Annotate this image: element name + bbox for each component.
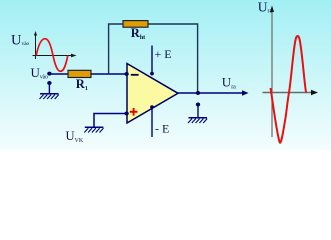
input graph horizontal axis <box>33 54 77 58</box>
output wire <box>178 92 243 94</box>
plus sign (noninverting input) <box>130 108 138 116</box>
node input terminal top <box>47 72 51 76</box>
ground (input port) <box>40 94 59 99</box>
node inverting input <box>124 72 128 76</box>
wire output port to ground <box>197 105 199 118</box>
input sine wave Uvao <box>36 39 68 72</box>
resistor R1 <box>68 70 91 77</box>
svg-text:+ E: + E <box>155 47 172 61</box>
ground (noninverting input) <box>84 127 103 132</box>
+E power pin <box>151 46 153 76</box>
feedback wire (left vertical, top, right vertical) <box>109 24 198 93</box>
op-amp U1 triangle <box>127 64 178 124</box>
output graph vertical axis <box>270 6 274 138</box>
output arrow <box>242 90 249 95</box>
input graph vertical axis <box>34 31 37 59</box>
minus sign (inverting input) <box>131 74 139 76</box>
output sine wave Ura <box>271 36 307 143</box>
node output junction <box>196 91 200 95</box>
svg-text:- E: - E <box>155 122 169 136</box>
resistor Rht <box>123 21 148 28</box>
node input terminal bottom <box>47 81 51 85</box>
wire noninverting input to ground <box>94 114 127 127</box>
wire input to op-amp <box>49 73 126 75</box>
-E power pin <box>151 106 153 137</box>
wire input terminal to ground <box>48 83 50 93</box>
node output port bottom <box>196 103 200 107</box>
output graph horizontal axis <box>263 90 319 95</box>
node noninverting input <box>124 112 128 116</box>
ground (output port) <box>188 118 207 123</box>
